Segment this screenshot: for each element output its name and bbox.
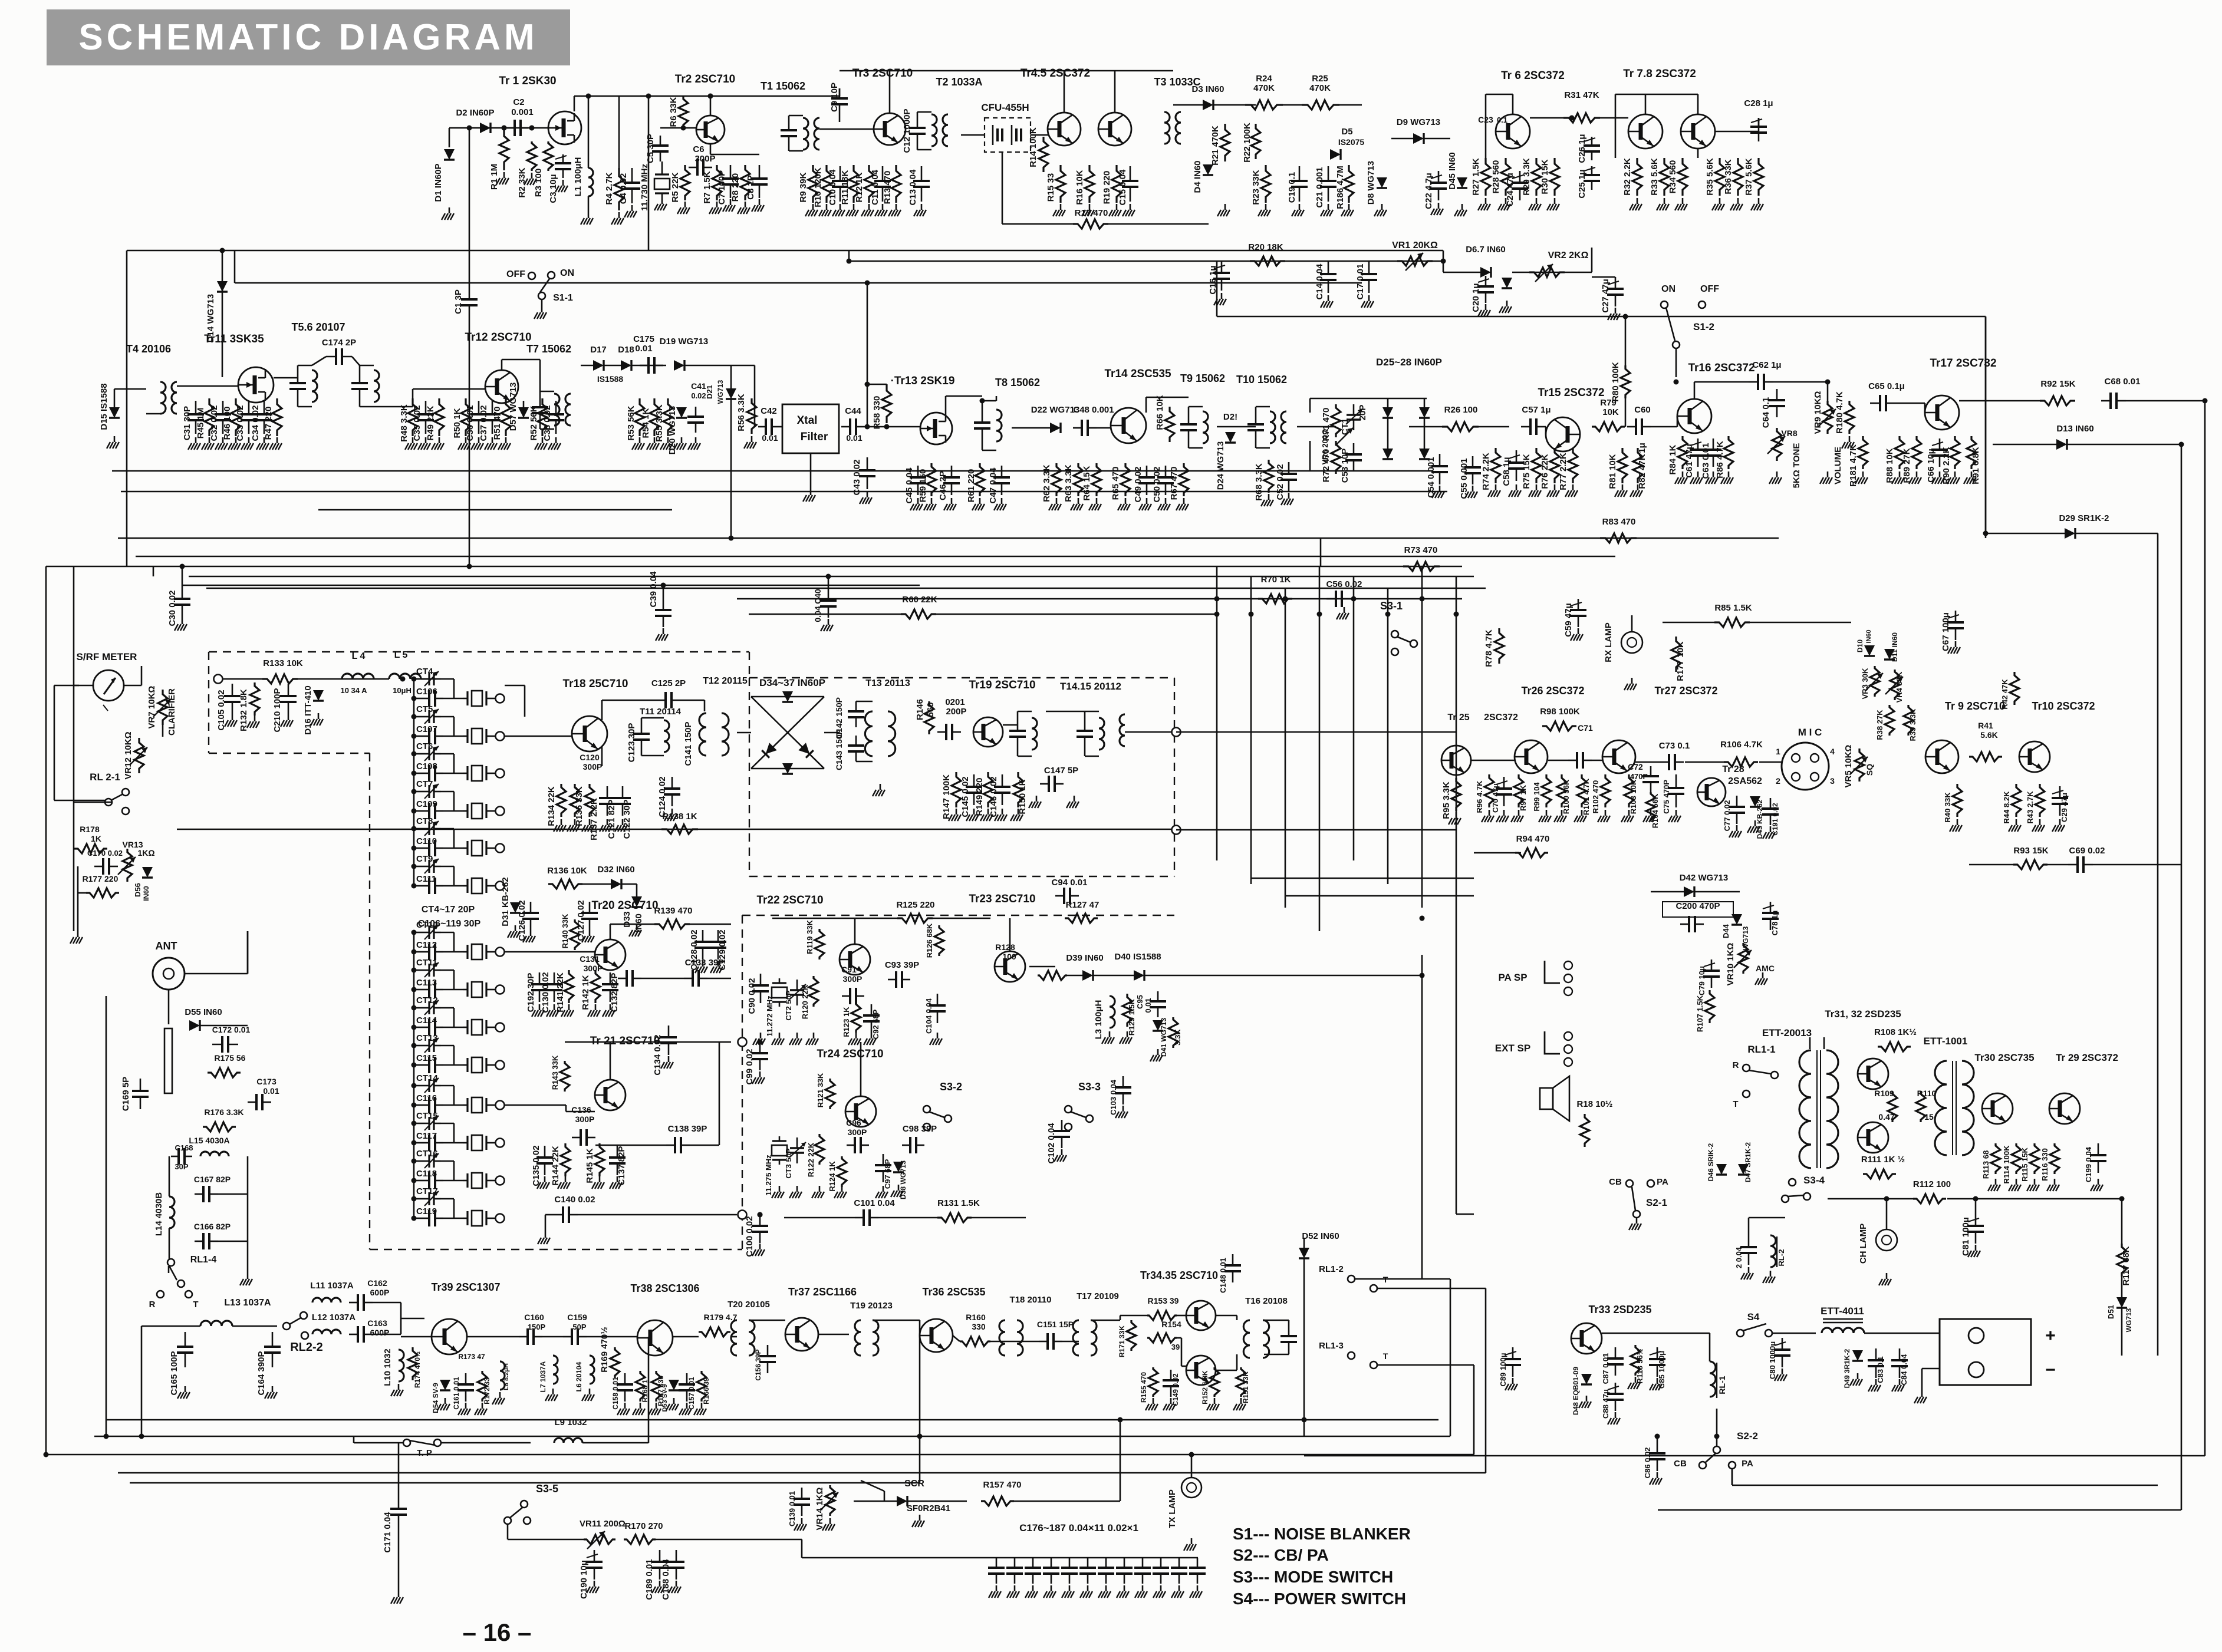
svg-text:R82 47K: R82 47K bbox=[1637, 454, 1647, 489]
wire bbox=[789, 115, 803, 117]
transistor bbox=[1858, 1059, 1888, 1089]
ground row2 stack bbox=[555, 437, 557, 443]
wire bbox=[1625, 398, 1627, 427]
wire bbox=[1216, 1370, 1237, 1371]
diode bbox=[676, 407, 687, 418]
svg-text:R51 470: R51 470 bbox=[492, 407, 502, 440]
ground osc stack bbox=[871, 1033, 873, 1038]
svg-text:ANT: ANT bbox=[156, 940, 177, 952]
resistor R27 1.5K bbox=[1481, 158, 1490, 196]
resistor R131 1.5K bbox=[937, 1213, 972, 1222]
wire rail mid 7 bbox=[206, 588, 1486, 589]
svg-text:C94 0.01: C94 0.01 bbox=[1052, 878, 1088, 888]
svg-text:WG713: WG713 bbox=[2125, 1308, 2133, 1332]
svg-text:C120: C120 bbox=[580, 753, 600, 762]
capacitor C103 0.04 bbox=[1122, 1076, 1124, 1087]
svg-text:S3-1: S3-1 bbox=[1380, 600, 1403, 612]
wire meter left bbox=[74, 685, 93, 687]
pot VR6 200 wiper bbox=[1335, 428, 1353, 446]
lamp CH bbox=[1876, 1229, 1897, 1251]
wire bbox=[839, 114, 841, 122]
ground T3 stack bbox=[1348, 204, 1350, 210]
ground Tr25 stack bbox=[1503, 810, 1505, 816]
svg-text:T10 15062: T10 15062 bbox=[1236, 374, 1287, 385]
lamp RX bbox=[1621, 632, 1642, 653]
ground row2 stack bbox=[412, 437, 414, 443]
wire bbox=[441, 716, 454, 718]
svg-text:R76 22K: R76 22K bbox=[1540, 454, 1550, 489]
svg-text:R124 1K: R124 1K bbox=[828, 1161, 837, 1192]
wire bbox=[565, 1105, 567, 1112]
junction C30 bbox=[180, 564, 185, 569]
wire bbox=[917, 149, 931, 151]
svg-text:C130 0.02: C130 0.02 bbox=[541, 972, 551, 1013]
svg-text:T5.6 20107: T5.6 20107 bbox=[291, 321, 345, 333]
capacitor C33 0.02 bbox=[248, 401, 250, 414]
wire bbox=[1921, 1369, 1923, 1391]
capacitor C164 390P bbox=[272, 1332, 274, 1347]
svg-text:R178: R178 bbox=[80, 825, 100, 834]
wire bbox=[2121, 1308, 2123, 1356]
svg-text:R160: R160 bbox=[966, 1313, 986, 1322]
trimmer CT15 bbox=[422, 1116, 441, 1130]
resistor R114 100K bbox=[2012, 1143, 2021, 1174]
ground Tr15 stack bbox=[1637, 484, 1639, 490]
svg-text:D25~28 IN60P: D25~28 IN60P bbox=[1376, 357, 1442, 368]
crystal channel CT15 bbox=[463, 1135, 491, 1150]
wire bbox=[1062, 1341, 1079, 1343]
wire bbox=[1391, 138, 1413, 140]
trimmer CT10 bbox=[422, 925, 441, 939]
svg-text:R120 22K: R120 22K bbox=[801, 984, 809, 1019]
wire bbox=[1264, 1354, 1289, 1356]
dashed box channel filter top bbox=[209, 651, 749, 652]
capacitor C89 100u bbox=[1512, 1347, 1514, 1359]
svg-text:1K: 1K bbox=[91, 834, 101, 843]
wire bbox=[414, 753, 422, 755]
resistor R21 470K bbox=[1220, 124, 1230, 161]
svg-text:C59 47μ: C59 47μ bbox=[1563, 603, 1573, 637]
wire rail mid 4 bbox=[118, 538, 1779, 539]
resistor R85 1.5K bbox=[1714, 618, 1750, 627]
wire bbox=[641, 978, 684, 980]
wire bbox=[2067, 444, 2181, 446]
dashed box oscillator right bbox=[742, 915, 743, 1249]
junction C111 bbox=[412, 883, 417, 889]
ground row1 stack bbox=[826, 204, 828, 210]
ground T3 stack bbox=[1265, 204, 1267, 210]
capacitor C38 0.02 bbox=[555, 401, 557, 414]
svg-text:R169 470½: R169 470½ bbox=[600, 1327, 610, 1373]
capacitor C4 0.02 bbox=[631, 168, 633, 183]
diode bbox=[1581, 1374, 1592, 1384]
resistor R144 22K bbox=[561, 1143, 570, 1176]
capacitor C142 150P bbox=[855, 701, 857, 711]
capacitor C101 0.04 bbox=[855, 1217, 864, 1219]
junction bus bbox=[1249, 612, 1254, 617]
capacitor C109 bbox=[421, 810, 429, 812]
resistor R118 56 bbox=[1631, 1345, 1640, 1376]
junction C107 bbox=[412, 734, 417, 739]
ground R155 bbox=[1153, 1398, 1154, 1404]
capacitor C9 10P bbox=[839, 88, 841, 98]
resistor R140 33K bbox=[570, 919, 580, 950]
wire bbox=[1886, 1199, 1888, 1229]
ground R56 bbox=[751, 436, 753, 442]
wire bbox=[443, 1027, 463, 1028]
wire into Tr21 bbox=[505, 1104, 566, 1106]
wire bbox=[1303, 1258, 1305, 1420]
svg-text:C156 39P: C156 39P bbox=[754, 1349, 762, 1380]
svg-text:3: 3 bbox=[1830, 776, 1835, 786]
resistor R93 15K bbox=[2013, 860, 2047, 869]
capacitor C64 0.1 bbox=[1776, 389, 1778, 400]
capacitor C160 150P bbox=[519, 1336, 528, 1338]
ground C67 bbox=[1955, 641, 1957, 647]
trimmer CT13 bbox=[422, 1038, 441, 1053]
transformer T18 20110 bbox=[999, 1320, 1023, 1356]
svg-text:R50 1K: R50 1K bbox=[452, 408, 462, 438]
resistor R72 470 bbox=[1331, 441, 1341, 474]
svg-text:R61 220: R61 220 bbox=[966, 469, 976, 503]
svg-text:100: 100 bbox=[1002, 952, 1016, 961]
diode bbox=[217, 281, 228, 292]
svg-text:C165 100P: C165 100P bbox=[169, 1351, 179, 1395]
wire bbox=[414, 810, 421, 812]
svg-text:C44: C44 bbox=[845, 406, 861, 416]
crystal 11.730 MHz bbox=[654, 170, 670, 198]
capacitor C123 30P bbox=[641, 718, 643, 734]
junction bus bbox=[1351, 596, 1357, 602]
svg-text:Tr4.5 2SC372: Tr4.5 2SC372 bbox=[1021, 67, 1090, 80]
svg-text:C149 0.02: C149 0.02 bbox=[1171, 1373, 1180, 1406]
svg-text:C111: C111 bbox=[416, 874, 436, 884]
ground audio out stack bbox=[2054, 1179, 2056, 1185]
ground AF stack bbox=[1939, 471, 1941, 477]
junction C86 bbox=[1655, 1434, 1660, 1439]
wire bbox=[1592, 760, 1602, 761]
junction Tr2 collector bbox=[708, 94, 713, 99]
junction C1 rail bbox=[467, 564, 472, 569]
svg-text:C103 0.04: C103 0.04 bbox=[1109, 1079, 1118, 1115]
ground row1 stack bbox=[896, 204, 897, 210]
resistor R102 470 bbox=[1601, 774, 1610, 807]
ground row2 stack bbox=[264, 437, 265, 443]
junction CT17 bbox=[412, 1196, 417, 1202]
junction bus bbox=[1454, 612, 1459, 617]
svg-text:VR12 10KΩ: VR12 10KΩ bbox=[123, 731, 133, 779]
resistor R2 33K bbox=[527, 141, 536, 171]
svg-text:D2 IN60P: D2 IN60P bbox=[456, 108, 494, 118]
resistor R19 220 bbox=[1112, 165, 1121, 203]
wire bbox=[443, 989, 463, 991]
svg-text:L 5: L 5 bbox=[394, 650, 408, 660]
svg-text:R132 1.8K: R132 1.8K bbox=[239, 689, 249, 731]
ground R4 bbox=[618, 212, 620, 218]
transformer T16 20108 bbox=[1243, 1320, 1269, 1358]
svg-text:R143 33K: R143 33K bbox=[551, 1055, 559, 1090]
ground R95 bbox=[1456, 812, 1457, 818]
svg-text:M I C: M I C bbox=[1798, 727, 1822, 738]
ground C188 bbox=[676, 1581, 677, 1587]
trimmer CT14 bbox=[422, 1078, 441, 1093]
wire S1-2 lever bbox=[1666, 308, 1675, 341]
capacitor C68 0.01 bbox=[2101, 400, 2111, 402]
svg-text:Tr12 2SC710: Tr12 2SC710 bbox=[465, 331, 531, 344]
switch S3-1 b bbox=[1410, 640, 1417, 647]
svg-text:C48 0.001: C48 0.001 bbox=[1073, 405, 1114, 415]
capacitor C115 bbox=[421, 1064, 429, 1066]
ground C140 bbox=[545, 1232, 547, 1238]
diode bbox=[1480, 267, 1491, 278]
switch S3-5 b bbox=[504, 1517, 511, 1524]
svg-text:R62 3.3K: R62 3.3K bbox=[1042, 464, 1052, 502]
junction bbox=[1674, 380, 1679, 385]
tuned circuit T6 bbox=[360, 365, 374, 407]
svg-text:C164 390P: C164 390P bbox=[256, 1351, 266, 1395]
svg-text:D33: D33 bbox=[622, 911, 632, 928]
wire bbox=[169, 1228, 170, 1261]
ground Tr6 stack bbox=[1719, 198, 1721, 204]
wire S3-2 lever bbox=[929, 1112, 944, 1117]
svg-text:R68 3.3K: R68 3.3K bbox=[1254, 463, 1264, 501]
wire bbox=[453, 754, 455, 773]
wire bbox=[1615, 94, 1617, 158]
wire bbox=[1749, 1217, 1785, 1219]
wire bbox=[373, 1334, 401, 1336]
resistor R120 22K bbox=[809, 976, 818, 1007]
svg-text:C31 30P: C31 30P bbox=[182, 406, 192, 440]
ground R152 bbox=[1214, 1398, 1216, 1404]
svg-text:0.01: 0.01 bbox=[762, 433, 778, 443]
junction C119 bbox=[412, 1216, 417, 1221]
ground L6 bbox=[589, 1389, 591, 1394]
svg-text:C17 0.01: C17 0.01 bbox=[1355, 264, 1365, 300]
svg-text:D5: D5 bbox=[1341, 127, 1352, 137]
resistor R64 15K bbox=[1092, 463, 1101, 496]
junction C165 feed bbox=[139, 1434, 144, 1439]
wire bus vertical lower bbox=[1421, 955, 1423, 1279]
wire bbox=[1309, 441, 1311, 471]
coil T11 bbox=[664, 720, 669, 752]
switch S3-2 b bbox=[944, 1115, 952, 1122]
svg-text:CT15: CT15 bbox=[416, 1111, 438, 1121]
switch S2-2 pole bbox=[1713, 1446, 1720, 1453]
ground C52 bbox=[1288, 493, 1290, 499]
junction bbox=[529, 126, 535, 131]
svg-text:R73 470: R73 470 bbox=[1404, 545, 1438, 555]
capacitor C39 0.04 bbox=[663, 599, 664, 610]
FET bbox=[920, 413, 952, 444]
junction C99 bbox=[758, 1040, 763, 1045]
wire bbox=[996, 396, 998, 401]
ground Tr33 stack bbox=[1586, 1396, 1588, 1402]
ground Tr18 stack bbox=[561, 819, 562, 825]
svg-text:R83 470: R83 470 bbox=[1602, 517, 1636, 527]
svg-text:VR5 10KΩ: VR5 10KΩ bbox=[1844, 745, 1854, 788]
svg-text:IN60: IN60 bbox=[142, 886, 150, 901]
capacitor T1 tuning bbox=[788, 116, 790, 130]
capacitor C7 100P bbox=[730, 165, 732, 179]
ground Tr4 stack bbox=[1089, 204, 1091, 210]
svg-text:C65 0.1μ: C65 0.1μ bbox=[1868, 381, 1905, 391]
FET bbox=[548, 111, 581, 144]
crystal channel CT13 bbox=[463, 1057, 491, 1073]
capacitor C131 300P bbox=[618, 978, 627, 980]
svg-text:C189 0.01: C189 0.01 bbox=[644, 1559, 654, 1600]
svg-text:R145 1K: R145 1K bbox=[585, 1148, 595, 1183]
wire bbox=[1339, 104, 1362, 106]
diode bbox=[1203, 100, 1213, 110]
junction bus bbox=[1385, 612, 1391, 617]
capacitor C175 0.01 bbox=[640, 365, 649, 367]
ground Tr21 stack bbox=[544, 1176, 546, 1182]
transistor bbox=[840, 944, 870, 975]
capacitor C14 0.04 bbox=[1328, 261, 1329, 274]
svg-text:SCHEMATIC DIAGRAM: SCHEMATIC DIAGRAM bbox=[78, 17, 538, 58]
svg-text:CT13: CT13 bbox=[416, 1033, 438, 1043]
wire bbox=[46, 1454, 83, 1456]
wire bbox=[1947, 1198, 2052, 1200]
svg-text:S2--- CB/ PA: S2--- CB/ PA bbox=[1233, 1546, 1329, 1564]
svg-text:R77 2.2K: R77 2.2K bbox=[1558, 453, 1568, 490]
resistor R106 4.7K bbox=[1724, 757, 1758, 767]
wire bbox=[421, 678, 436, 680]
wire bbox=[2126, 400, 2205, 402]
wire bbox=[1146, 397, 1189, 398]
wire bbox=[491, 989, 496, 991]
resistor R166 39 bbox=[697, 1371, 706, 1402]
svg-text:Tr30 2SC735: Tr30 2SC735 bbox=[1974, 1052, 2034, 1063]
capacitor C134 0.02 bbox=[668, 1026, 670, 1037]
wire bbox=[602, 700, 656, 701]
svg-text:IS2075: IS2075 bbox=[1338, 137, 1365, 147]
svg-text:R26 100: R26 100 bbox=[1444, 405, 1478, 415]
svg-text:R65 470: R65 470 bbox=[1111, 467, 1121, 500]
ground R129 bbox=[1127, 1031, 1128, 1037]
trimmer CT2 50P bbox=[789, 980, 806, 1005]
capacitor C130 0.02 bbox=[554, 972, 555, 984]
wire bbox=[414, 1085, 422, 1087]
wire bbox=[414, 1064, 421, 1066]
resistor R129 1.5K bbox=[1122, 994, 1132, 1027]
tank capacitor bbox=[359, 365, 361, 383]
ground L3 bbox=[1109, 1031, 1111, 1037]
diode bbox=[669, 1380, 679, 1390]
resistor R180 4.7K bbox=[1845, 401, 1854, 434]
diode bbox=[1750, 796, 1760, 807]
resistor R37 5.6K bbox=[1754, 158, 1763, 196]
svg-text:R100 56K: R100 56K bbox=[1562, 779, 1571, 814]
resistor R97 1K bbox=[1514, 774, 1523, 807]
svg-text:R18 10½: R18 10½ bbox=[1577, 1099, 1613, 1109]
svg-text:C56 0.02: C56 0.02 bbox=[1326, 579, 1362, 589]
ground Tr25 stack bbox=[1605, 810, 1607, 816]
switch S1-2 OFF contact bbox=[1698, 301, 1706, 308]
svg-text:Tr39 2SC1307: Tr39 2SC1307 bbox=[431, 1281, 500, 1293]
svg-text:S3-3: S3-3 bbox=[1078, 1081, 1101, 1093]
capacitor C169 5P bbox=[140, 1079, 141, 1091]
ground C190 bbox=[594, 1581, 595, 1587]
wire into Tr20 bbox=[505, 951, 595, 953]
svg-text:C34 0.02: C34 0.02 bbox=[251, 405, 261, 441]
svg-text:C15 0.04: C15 0.04 bbox=[1118, 169, 1128, 206]
ground C14 bbox=[1328, 295, 1329, 301]
svg-text:330: 330 bbox=[972, 1322, 986, 1331]
capacitor C84 0.04 bbox=[1899, 1348, 1901, 1360]
wire bbox=[222, 678, 262, 680]
resistor R177 10K bbox=[1671, 637, 1681, 672]
relay RL2-1 contact a bbox=[122, 789, 129, 796]
wire bbox=[1093, 975, 1134, 977]
svg-text:R53 56K: R53 56K bbox=[626, 405, 636, 440]
switch S3-1 c bbox=[1391, 648, 1398, 655]
ground Tr20 stack bbox=[610, 1004, 611, 1010]
svg-text:D42 WG713: D42 WG713 bbox=[1680, 873, 1729, 883]
inductor L13 bbox=[200, 1321, 232, 1326]
transistor bbox=[1186, 1356, 1216, 1385]
svg-text:C96: C96 bbox=[846, 1118, 861, 1127]
svg-text:R5 22K: R5 22K bbox=[670, 172, 680, 202]
ground AF stack bbox=[1916, 471, 1918, 477]
wire bbox=[704, 700, 706, 711]
dashed box crystal bank left bbox=[369, 753, 370, 1249]
wire Tr3 base bbox=[819, 128, 874, 130]
wire bbox=[453, 1123, 455, 1143]
svg-text:CLARIFIER: CLARIFIER bbox=[167, 688, 177, 736]
wire bbox=[684, 365, 755, 367]
svg-text:R42 47K: R42 47K bbox=[2000, 679, 2009, 710]
svg-text:2 0.04: 2 0.04 bbox=[1734, 1247, 1743, 1268]
svg-text:R4 2.7K: R4 2.7K bbox=[604, 172, 614, 205]
wire bbox=[1009, 918, 1011, 951]
svg-text:R12 1K: R12 1K bbox=[854, 172, 864, 202]
svg-text:T2 1033A: T2 1033A bbox=[936, 76, 982, 88]
power connector bbox=[1940, 1319, 2031, 1385]
switch S3-4 a bbox=[1789, 1179, 1796, 1186]
ground Tr33 stack bbox=[1657, 1378, 1658, 1384]
svg-text:4: 4 bbox=[1830, 747, 1835, 756]
trimmer CT4 bbox=[422, 671, 441, 686]
relay RL2-2 down bbox=[301, 1332, 308, 1339]
wire bbox=[1064, 71, 1065, 113]
resistor R137 2.2K bbox=[585, 784, 594, 817]
svg-text:C145 0.02: C145 0.02 bbox=[960, 776, 970, 817]
ground C103 bbox=[1122, 1106, 1124, 1112]
wire R4 drop bbox=[618, 96, 620, 168]
wire bbox=[873, 1320, 920, 1321]
resistor R86 4.7K bbox=[1724, 436, 1733, 469]
svg-text:R174 470½: R174 470½ bbox=[413, 1351, 422, 1388]
svg-text:R122 22K: R122 22K bbox=[806, 1142, 815, 1177]
capacitor C148 0.01 bbox=[1232, 1254, 1234, 1265]
svg-text:C115: C115 bbox=[416, 1053, 437, 1063]
ground S2-1 bbox=[1636, 1218, 1638, 1224]
svg-text:R59 150: R59 150 bbox=[918, 469, 928, 503]
svg-text:C22 4.7μ: C22 4.7μ bbox=[1424, 173, 1434, 209]
transformer ETT-1001 bbox=[1935, 1061, 1974, 1155]
resistor R70 1K bbox=[1258, 594, 1292, 604]
svg-text:C80 1000μ: C80 1000μ bbox=[1768, 1341, 1777, 1379]
diode bbox=[1225, 432, 1236, 443]
svg-text:ETT-20013: ETT-20013 bbox=[1762, 1027, 1812, 1038]
ground Tr15 stack bbox=[1622, 484, 1624, 490]
capacitor C156 39P bbox=[767, 1345, 769, 1356]
svg-text:TX LAMP: TX LAMP bbox=[1167, 1489, 1177, 1528]
wire bbox=[631, 365, 666, 367]
svg-text:Xtal: Xtal bbox=[797, 414, 818, 427]
junction C1 bbox=[467, 126, 472, 131]
